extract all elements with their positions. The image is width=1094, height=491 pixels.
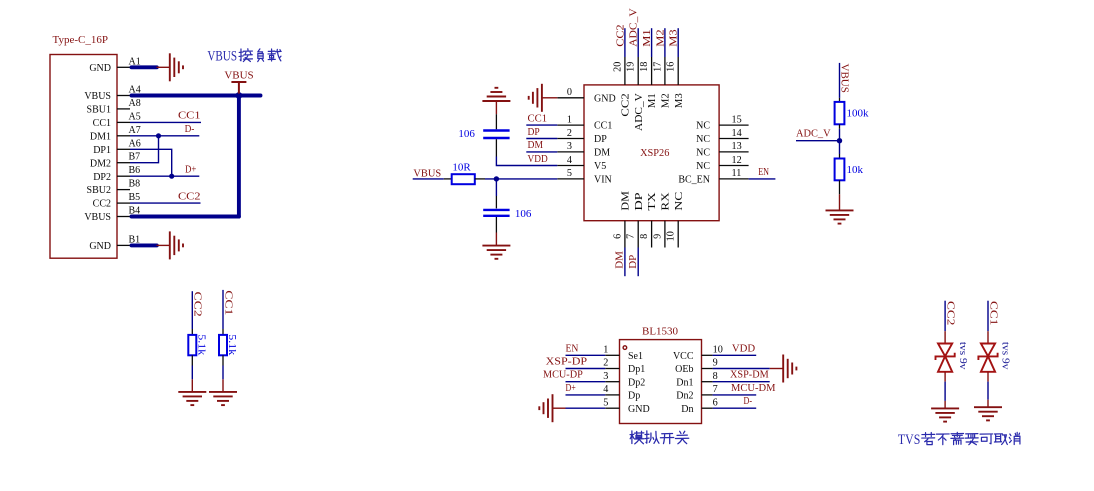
svg-text:SBU2: SBU2 <box>87 185 111 196</box>
svg-text:DP: DP <box>634 192 645 211</box>
resistor R? 10R body <box>452 174 475 184</box>
ground stem <box>495 233 497 246</box>
wire B1 GND (thick) <box>132 243 157 247</box>
pin 5 stub <box>605 407 619 409</box>
junction D+ <box>169 174 174 179</box>
svg-text:M1: M1 <box>641 29 653 46</box>
annotation 若不需要可取消 <box>922 432 1020 444</box>
wire CC1 <box>222 290 224 329</box>
wire CC1 to TVS <box>987 301 989 332</box>
pin 7 stub <box>702 394 713 396</box>
svg-text:MCU-DP: MCU-DP <box>543 369 583 381</box>
pin B4 stub <box>117 216 130 218</box>
10k lead bottom <box>839 180 841 194</box>
svg-text:SBU1: SBU1 <box>87 105 111 116</box>
pin 7 stub <box>637 221 639 248</box>
svg-text:10: 10 <box>713 345 723 356</box>
svg-text:12: 12 <box>732 155 742 166</box>
svg-text:EN: EN <box>758 166 769 178</box>
svg-text:DM2: DM2 <box>90 158 111 169</box>
svg-text:10: 10 <box>666 231 677 241</box>
pin B1 stub <box>117 244 130 246</box>
svg-text:M2: M2 <box>661 93 672 108</box>
svg-text:D-: D- <box>744 395 753 407</box>
svg-text:3: 3 <box>603 371 608 382</box>
TVS lead top <box>987 331 989 343</box>
svg-text:100k: 100k <box>847 108 870 120</box>
ground at B1 <box>170 231 183 259</box>
pin 3 stub <box>605 381 619 383</box>
svg-text:M3: M3 <box>668 29 680 47</box>
wire XSP-DP <box>566 368 606 370</box>
ground stem pin9 <box>770 368 784 370</box>
wire to ground <box>191 366 193 380</box>
ground under CC2 resistor <box>178 392 206 405</box>
svg-text:Dn: Dn <box>681 404 693 415</box>
TVS diode D? (CC1) <box>978 344 997 372</box>
resistor lead <box>191 355 193 365</box>
wire VBUS B4 (thick) <box>132 215 239 219</box>
ground at BL1530 pin 9 <box>783 355 796 383</box>
svg-text:M2: M2 <box>654 29 666 46</box>
cap lead top (bottom cap) <box>495 196 497 208</box>
svg-text:VCC: VCC <box>673 351 694 362</box>
resistor lead <box>191 329 193 335</box>
svg-text:ADC_V: ADC_V <box>634 92 645 131</box>
junction ADC_V <box>837 138 842 143</box>
svg-text:CC2: CC2 <box>178 190 201 202</box>
wire M1 <box>651 28 653 57</box>
resistor R? 10k body <box>835 159 845 181</box>
pin A5 stub <box>117 121 130 123</box>
svg-text:CC2: CC2 <box>621 93 632 116</box>
svg-text:DM: DM <box>594 148 610 159</box>
svg-text:XSP-DM: XSP-DM <box>730 369 769 381</box>
wire CC1 <box>526 124 557 126</box>
svg-text:10k: 10k <box>847 164 864 176</box>
svg-text:CC1: CC1 <box>594 121 612 132</box>
pin A8 stub <box>117 108 130 110</box>
wire XSP-DM <box>713 381 770 383</box>
ground stem pin5 <box>553 407 566 409</box>
svg-text:Type-C_16P: Type-C_16P <box>53 34 108 46</box>
svg-text:DM: DM <box>528 139 544 151</box>
svg-text:VBUS: VBUS <box>839 64 851 93</box>
pin 6 stub <box>702 407 713 409</box>
svg-text:VBUS: VBUS <box>224 70 253 81</box>
svg-text:CC1: CC1 <box>222 290 234 315</box>
svg-text:DM: DM <box>614 251 626 269</box>
10k lead top <box>839 154 841 159</box>
svg-text:V5: V5 <box>594 161 606 172</box>
svg-text:5: 5 <box>603 397 608 408</box>
analog switch U2 BL1530 body <box>620 340 702 424</box>
wire DM <box>526 151 557 153</box>
svg-text:EN: EN <box>566 342 579 354</box>
svg-text:DP2: DP2 <box>93 172 111 183</box>
svg-text:7: 7 <box>626 234 637 239</box>
pin 20 stub <box>624 57 626 85</box>
ground stem A1 <box>157 66 170 68</box>
svg-text:VBUS: VBUS <box>84 212 111 223</box>
annotation 接负载 <box>239 49 281 62</box>
wire DP <box>526 138 557 140</box>
svg-text:106: 106 <box>515 208 532 220</box>
wire D- <box>130 135 199 137</box>
ground stem <box>222 379 224 392</box>
op IC U1 XSP26 body <box>584 85 719 221</box>
pin 14 stub <box>719 138 749 140</box>
pin-1 marker dot <box>623 346 627 350</box>
pin B6 stub <box>117 175 130 177</box>
pin A4 stub <box>117 95 130 97</box>
svg-text:8: 8 <box>713 371 718 382</box>
svg-text:D+: D+ <box>185 163 196 175</box>
svg-text:OEb: OEb <box>675 364 693 375</box>
svg-text:VIN: VIN <box>594 175 612 186</box>
svg-text:6: 6 <box>612 234 623 239</box>
wire pin9 GND <box>713 368 770 370</box>
wire CC2 <box>130 202 201 204</box>
ground stem <box>944 401 946 409</box>
wire TVS to ground <box>944 382 946 401</box>
svg-text:NC: NC <box>696 121 710 132</box>
junction D- <box>156 133 161 138</box>
pin 2 stub <box>605 368 619 370</box>
svg-text:MCU-DM: MCU-DM <box>731 382 776 394</box>
svg-text:DM: DM <box>621 191 632 211</box>
pin B7 stub <box>117 162 130 164</box>
ground stem <box>839 194 841 210</box>
svg-text:B6: B6 <box>129 165 141 176</box>
svg-text:5.1k: 5.1k <box>195 334 207 356</box>
ground under TVS CC1 <box>974 407 1002 420</box>
pin 13 stub <box>719 151 749 153</box>
svg-text:19: 19 <box>626 62 637 72</box>
100k lead top <box>839 98 841 102</box>
pin 2 stub <box>557 138 584 140</box>
svg-text:17: 17 <box>652 62 663 72</box>
pin 1 stub <box>557 124 584 126</box>
svg-text:GND: GND <box>628 404 650 415</box>
ground under CC1 resistor <box>209 392 237 405</box>
svg-text:ADC_V: ADC_V <box>796 128 831 140</box>
svg-text:106: 106 <box>458 128 475 140</box>
wire VDD <box>713 354 757 356</box>
svg-text:tvs 9v: tvs 9v <box>957 342 969 370</box>
svg-text:ADC_V: ADC_V <box>628 8 640 47</box>
svg-text:TX: TX <box>647 191 658 210</box>
svg-text:B5: B5 <box>129 192 141 203</box>
pin 8 stub <box>651 221 653 248</box>
pin 16 stub <box>677 57 679 85</box>
svg-text:VDD: VDD <box>528 153 548 165</box>
wire MCU-DP <box>566 381 606 383</box>
wire D+ <box>130 175 199 177</box>
svg-text:DP: DP <box>594 134 607 145</box>
pin 9 stub <box>702 368 713 370</box>
ground stem down <box>495 101 497 114</box>
svg-text:7: 7 <box>713 384 718 395</box>
connector J1 body <box>50 55 117 259</box>
wire DP <box>637 248 639 277</box>
svg-text:CC2: CC2 <box>93 199 111 210</box>
svg-text:CC2: CC2 <box>614 24 626 46</box>
svg-text:15: 15 <box>732 114 742 125</box>
pin 8 stub <box>702 381 713 383</box>
svg-text:M3: M3 <box>674 93 685 108</box>
pin 0 stub <box>557 97 584 99</box>
svg-text:D+: D+ <box>566 382 576 394</box>
wire M2 <box>664 28 666 57</box>
capacitor C? 106 (bottom) plates <box>483 210 509 216</box>
ground stem B1 <box>157 244 170 246</box>
pin 17 stub <box>664 57 666 85</box>
svg-text:CC1: CC1 <box>987 301 999 325</box>
pin A1 stub <box>117 66 130 68</box>
svg-text:9: 9 <box>713 358 718 369</box>
pin 18 stub <box>651 57 653 85</box>
pin 1 stub <box>605 354 619 356</box>
svg-text:13: 13 <box>732 141 742 152</box>
svg-text:5.1k: 5.1k <box>226 334 238 356</box>
svg-text:TVS: TVS <box>898 432 920 448</box>
svg-text:B8: B8 <box>129 179 141 190</box>
svg-text:10R: 10R <box>452 162 471 174</box>
svg-text:4: 4 <box>567 155 572 166</box>
pin 4 stub <box>557 165 584 167</box>
wire DM <box>624 248 626 277</box>
ground stem <box>191 379 193 392</box>
TVS lead bottom <box>987 372 989 382</box>
ground under TVS CC2 <box>931 408 959 421</box>
svg-text:A5: A5 <box>129 111 141 122</box>
svg-text:18: 18 <box>639 62 650 72</box>
pin 11 stub <box>719 178 749 180</box>
resistor lead <box>222 329 224 335</box>
pin A6 stub <box>117 148 130 150</box>
svg-text:VBUS: VBUS <box>413 168 441 180</box>
svg-text:A6: A6 <box>129 138 141 149</box>
wire ADC_V <box>637 28 639 57</box>
wire VBUS to 10R <box>413 178 444 180</box>
pin 10 stub <box>677 221 679 248</box>
pin 3 stub <box>557 151 584 153</box>
svg-text:A7: A7 <box>129 125 141 136</box>
wire D+ <box>566 394 606 396</box>
ground stem pin0 <box>542 97 557 99</box>
svg-text:M1: M1 <box>647 93 658 108</box>
svg-text:RX: RX <box>661 191 672 210</box>
capacitor C? 106 (top) plates <box>483 131 509 139</box>
pin 5 stub <box>557 178 584 180</box>
svg-text:6: 6 <box>713 397 718 408</box>
svg-text:VBUS: VBUS <box>207 49 237 65</box>
cap lead top <box>495 114 497 129</box>
wire ADC_V <box>796 140 840 142</box>
svg-text:CC2: CC2 <box>944 301 956 325</box>
wire pin5 GND <box>566 407 606 409</box>
svg-text:GND: GND <box>89 63 111 74</box>
resistor CC2 5.1k body <box>188 335 196 355</box>
svg-text:NC: NC <box>696 134 710 145</box>
svg-text:16: 16 <box>666 62 677 72</box>
svg-text:DP: DP <box>528 126 540 138</box>
pin 12 stub <box>719 165 749 167</box>
ground below bottom cap <box>482 246 510 259</box>
svg-text:CC2: CC2 <box>192 292 204 317</box>
wire TVS to ground <box>987 382 989 400</box>
svg-text:11: 11 <box>732 168 742 179</box>
wire DM2 to DM1 <box>130 136 159 163</box>
wire junction down <box>495 179 497 196</box>
svg-text:1: 1 <box>603 345 608 356</box>
svg-text:GND: GND <box>594 93 616 104</box>
svg-text:CC1: CC1 <box>178 110 201 122</box>
svg-text:14: 14 <box>732 128 742 139</box>
ground at A1 <box>170 53 183 81</box>
100k lead bottom <box>839 124 841 129</box>
svg-text:tvs 9v: tvs 9v <box>1000 342 1012 370</box>
svg-text:Dp2: Dp2 <box>628 377 645 388</box>
wire DP1 to DP2 <box>130 149 172 176</box>
wire VDD pin4 <box>496 157 557 166</box>
pin 10 stub <box>702 354 713 356</box>
wire M3 <box>677 28 679 57</box>
svg-text:Dn1: Dn1 <box>676 377 693 388</box>
ground stem <box>987 400 989 408</box>
TVS diode D? (CC2) <box>936 344 955 372</box>
svg-text:CC1: CC1 <box>93 118 111 129</box>
svg-text:Dp: Dp <box>628 391 640 402</box>
svg-text:5: 5 <box>567 168 572 179</box>
svg-text:GND: GND <box>89 241 111 252</box>
svg-text:Dn2: Dn2 <box>676 391 693 402</box>
svg-text:0: 0 <box>567 87 572 98</box>
10R lead <box>444 178 452 180</box>
ground inverted above cap <box>482 88 510 101</box>
wire to ground <box>222 366 224 380</box>
svg-text:VDD: VDD <box>732 342 755 354</box>
svg-text:D-: D- <box>185 123 195 135</box>
ground below divider <box>826 210 854 223</box>
TVS lead top <box>944 331 946 343</box>
wire MCU-DM <box>713 394 757 396</box>
wire CC2 to TVS <box>944 301 946 332</box>
pin 19 stub <box>637 57 639 85</box>
wire CC2 <box>191 291 193 329</box>
wire D- <box>713 407 757 409</box>
svg-text:Se1: Se1 <box>628 351 643 362</box>
svg-text:4: 4 <box>603 384 608 395</box>
wire mid divider <box>839 129 841 154</box>
svg-text:Dp1: Dp1 <box>628 364 645 375</box>
wire VBUS top <box>839 63 841 98</box>
svg-text:3: 3 <box>567 141 572 152</box>
pin 4 stub <box>605 394 619 396</box>
pin B5 stub <box>117 202 130 204</box>
pin 9 stub <box>664 221 666 248</box>
annotation 模拟开关 <box>630 431 689 444</box>
junction VIN <box>494 176 499 181</box>
svg-text:2: 2 <box>567 128 572 139</box>
svg-text:CC1: CC1 <box>528 112 548 124</box>
svg-text:BL1530: BL1530 <box>642 326 679 338</box>
pin A7 stub <box>117 135 130 137</box>
pin 6 stub <box>624 221 626 248</box>
svg-text:2: 2 <box>603 358 608 369</box>
wire VBUS vertical (thick) <box>237 96 241 217</box>
svg-text:8: 8 <box>639 234 650 239</box>
svg-text:20: 20 <box>612 62 623 72</box>
svg-text:XSP26: XSP26 <box>640 147 670 159</box>
cap lead bottom <box>495 139 497 156</box>
resistor lead <box>222 355 224 365</box>
resistor CC1 5.1k body <box>219 335 227 355</box>
svg-text:DM1: DM1 <box>90 131 111 142</box>
svg-text:B7: B7 <box>129 152 141 163</box>
junction VBUS <box>236 92 243 99</box>
pin B8 stub <box>117 189 130 191</box>
svg-text:NC: NC <box>696 148 710 159</box>
wire EN <box>566 354 606 356</box>
wire VIN <box>485 178 557 180</box>
svg-text:BC_EN: BC_EN <box>678 175 710 186</box>
wire EN <box>749 178 776 180</box>
wire A1 GND (thick) <box>132 65 157 69</box>
svg-text:A8: A8 <box>129 98 141 109</box>
wire CC1 <box>130 121 201 123</box>
cap lead bottom <box>495 217 497 233</box>
svg-text:NC: NC <box>674 191 685 210</box>
ground at pin 0 <box>529 84 542 112</box>
svg-text:NC: NC <box>696 161 710 172</box>
svg-text:XSP-DP: XSP-DP <box>546 356 588 368</box>
wire CC2 <box>624 28 626 57</box>
svg-text:DP: DP <box>627 255 639 269</box>
pin 15 stub <box>719 124 749 126</box>
resistor R? 100k body <box>835 102 845 124</box>
svg-text:DP1: DP1 <box>93 145 111 156</box>
TVS lead bottom <box>944 372 946 382</box>
power port VBUS <box>231 82 246 94</box>
svg-text:VBUS: VBUS <box>84 91 111 102</box>
wire VBUS A4 (thick) <box>132 94 261 98</box>
10R lead right <box>475 178 485 180</box>
svg-text:9: 9 <box>652 234 663 239</box>
ground at BL1530 pin 5 <box>539 394 552 422</box>
svg-text:1: 1 <box>567 114 572 125</box>
